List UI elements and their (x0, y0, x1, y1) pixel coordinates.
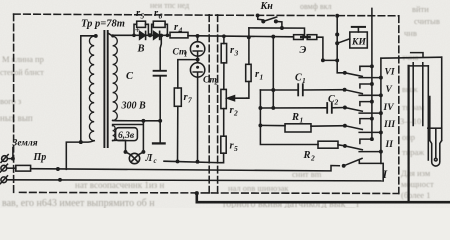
blade to KI box (337, 39, 350, 44)
right block dashed border: right side (398, 16, 400, 194)
connector clip at tube top (411, 53, 423, 58)
terminal mains 3 (0, 176, 7, 184)
wire C2 to IV blade (332, 107, 345, 109)
node terminal1 (11, 157, 15, 161)
outer dashed border left block: top (14, 14, 217, 15)
wire r3 to r2 (223, 63, 225, 90)
node rail at stabilizer chain (196, 34, 200, 38)
label В rectifier (137, 44, 145, 55)
control source box КИ (350, 32, 368, 48)
wiper arrow of r2 (230, 97, 247, 99)
node Kn on border (256, 13, 260, 17)
wire primary top to left drop (81, 36, 96, 142)
wire terminal2 to fuse (7, 167, 16, 169)
wire to counter tube (381, 57, 442, 58)
terminal Земля (1, 155, 8, 163)
node KI column on border (335, 14, 339, 18)
wire C cap vertical upper (160, 36, 161, 71)
label r3 (230, 45, 239, 58)
node Э output corner (321, 58, 325, 62)
label + polarity (135, 25, 140, 35)
label III (383, 120, 395, 130)
transformer secondary HV winding (113, 36, 118, 120)
node Kn contact right (274, 19, 278, 23)
vessel beaker rim (409, 65, 429, 67)
counter tube anode wire (434, 128, 437, 161)
node St chain at bus (196, 160, 200, 164)
label IV (383, 103, 395, 113)
wire KI column (337, 16, 345, 73)
resistor r3 (221, 44, 226, 63)
electrometer tube Э (294, 35, 304, 40)
resistor r3 top lead (223, 36, 225, 43)
gas stabilizer St1 (190, 42, 204, 56)
label r1 (255, 69, 263, 82)
fuse Пр (16, 165, 31, 171)
wire 6.3 winding bottom to lamp (113, 140, 126, 152)
capacitor C2 (327, 103, 332, 113)
label r4 (174, 22, 183, 35)
wire r2 to r5b (223, 109, 225, 137)
node lamp right (141, 150, 145, 154)
resistor r6 bridging diode V2 (152, 24, 168, 35)
wire St node to r7 (178, 60, 198, 88)
label R1 (291, 112, 303, 125)
node between stabilizers (196, 58, 200, 62)
label Пр (33, 152, 47, 163)
node secondary top (111, 34, 114, 37)
label r6 (154, 8, 163, 21)
wire C1 from V contact (260, 89, 298, 91)
label Земля (12, 139, 38, 149)
node r1 rail (247, 35, 251, 39)
diode V1 (140, 31, 146, 39)
node chassis on bottom border (195, 191, 199, 195)
node KI column lower (335, 58, 339, 62)
outer dashed border: bottom (20, 192, 399, 193)
wire primary bottom hook to fuse riser (66, 141, 94, 170)
node on wire A (56, 167, 60, 171)
node on wire B (58, 178, 62, 182)
node C2 wire at vertical2x (271, 106, 275, 110)
wire r5b bottom to bus (220, 153, 223, 163)
wire left block bottom bus (164, 161, 220, 163)
wire Э output (317, 37, 337, 60)
wire A fuse output to contact I (31, 166, 340, 171)
elbow Kn right contact down to grid wire (276, 21, 282, 28)
resistor r1 (246, 64, 251, 81)
node primary left drop bottom (79, 140, 83, 144)
wire Kn riser (248, 28, 250, 37)
resistor r1 top lead from rail (248, 37, 250, 64)
wire St2 down to bus (197, 77, 199, 162)
label Кн (260, 1, 274, 12)
label r5 (136, 8, 145, 21)
label Ст2 (203, 76, 219, 87)
contact II (343, 137, 383, 153)
divider double dashed border between blocks (209, 15, 217, 193)
transformer primary winding (89, 36, 94, 141)
node r6 right (166, 33, 170, 37)
label C (126, 71, 134, 82)
wire terminal1 to border (7, 148, 12, 159)
gas stabilizer St2 (190, 63, 204, 77)
contact IV (343, 100, 383, 115)
node vertical2 top (271, 35, 275, 39)
vessel left wall (408, 66, 410, 201)
wire B terminal3 to contact I return (7, 180, 384, 181)
label Тр p=78m (81, 19, 125, 30)
secondary top hook (108, 33, 112, 36)
contact V (343, 82, 383, 97)
label Ст1 (173, 48, 188, 59)
resistor r4 (170, 32, 188, 38)
label Э (300, 45, 307, 56)
wire r1 bottom to r2 wiper (247, 82, 249, 99)
transformer secondary 6.3V winding (113, 126, 115, 141)
blade Kn (263, 17, 276, 21)
resistor r5 lower (221, 136, 226, 153)
node Kn contact left (261, 19, 265, 23)
box label 6,3в (116, 128, 138, 141)
label II (385, 140, 394, 150)
label r5 lower (230, 141, 239, 154)
counter tube crossbar (428, 127, 442, 129)
vessel right wall (427, 66, 429, 160)
node vertical2 bottom (271, 88, 275, 92)
wire secondary top to rectifier (113, 35, 135, 36)
potentiometer r2 (221, 89, 226, 108)
label Лс (145, 153, 157, 165)
wire St1 to St2 (197, 56, 199, 63)
node r7 at bus (176, 159, 180, 163)
label C2 (328, 94, 339, 107)
counter tube tail (430, 141, 442, 167)
node primary top (94, 34, 98, 38)
node r5 left (132, 33, 136, 37)
label I (382, 167, 389, 181)
wire rail to St1 (197, 36, 199, 42)
contact VI (343, 64, 383, 79)
wire C2 left (260, 107, 327, 109)
node grid wire (280, 26, 284, 30)
node between diodes (148, 33, 152, 37)
right block dashed border: top (217, 14, 399, 17)
wire r4 to St node and across to right block (188, 36, 292, 37)
wire R1 to III blade (311, 125, 345, 128)
vessel inner wall marks (413, 63, 423, 126)
outer dashed border: left side (13, 14, 15, 192)
node return to lamp branch (141, 119, 145, 123)
antenna symbol above КИ (357, 27, 359, 32)
label r2 (230, 105, 239, 118)
wire C cap vertical lower to ground bar (159, 76, 161, 143)
wire chassis to vessel bottom (197, 193, 450, 202)
diode V2 (154, 31, 160, 39)
label r7 (184, 92, 193, 105)
node lamp left (124, 150, 128, 154)
resistor r7 (174, 88, 181, 106)
node KI contact lower (335, 41, 339, 45)
node cap C top (159, 34, 163, 38)
bus1 socket column (371, 8, 373, 139)
contact III (343, 117, 383, 135)
vertical1 bus (260, 90, 318, 145)
counter tube body (430, 57, 442, 140)
label 300 В (121, 101, 147, 112)
node HV return at cap (158, 119, 162, 123)
lamp Lc leads (126, 152, 144, 155)
wire R2 to II blade (338, 145, 345, 146)
wire 6.3 winding top link (113, 121, 144, 152)
resistor R2 (318, 141, 338, 148)
resistor R1 (285, 124, 311, 132)
node KI contact upper (335, 32, 339, 36)
label VI (385, 68, 395, 78)
terminal mains 2 (0, 164, 7, 172)
bus2 column (380, 58, 382, 163)
lamp Lc (129, 153, 139, 163)
node v1 at C2 wire (258, 106, 262, 110)
label V (386, 85, 393, 95)
faint page bleed text top-left (0, 54, 322, 193)
push button Кн: left contact elbow to border (258, 15, 264, 21)
vertical2 from rail to C1 wire (272, 37, 274, 108)
wire HV secondary return (113, 119, 161, 121)
contact I (342, 158, 383, 181)
wire Kn horizontal to Э grid (249, 28, 305, 37)
chassis ground bar (153, 142, 165, 144)
transformer core (104, 31, 107, 147)
wire between diodes (134, 34, 153, 36)
resistor r5 bridging diode V1 (134, 24, 148, 35)
wire diode2 to r4 (159, 34, 170, 36)
wire C1 to V blade (303, 89, 345, 91)
wire r7 to bus (177, 106, 179, 161)
label R2 (303, 150, 316, 163)
capacitor C1 (298, 84, 303, 95)
wire R1 left (260, 124, 285, 126)
node r3 top on rail (222, 34, 226, 38)
label C1 (295, 73, 306, 86)
node v1 at R1 wire (258, 123, 262, 127)
capacitor C plates (154, 71, 166, 76)
